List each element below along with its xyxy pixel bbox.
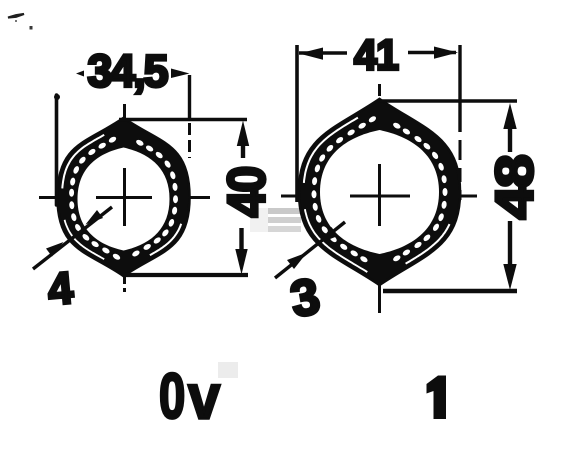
tube 1 vertical centerline — [378, 84, 381, 313]
dimension 41 right extension line — [458, 45, 461, 132]
dimension 34,5 right extension line — [188, 75, 191, 118]
svg-text:0: 0 — [159, 360, 185, 432]
dimension 41 left extension line — [295, 45, 299, 202]
dimension 34,5 left extension line — [55, 95, 59, 205]
size label 1 — [427, 376, 447, 420]
tube 1 center cross — [350, 195, 410, 198]
dimension 41 right arrow — [408, 51, 456, 55]
dimension 34,5 right arrow — [171, 69, 190, 79]
wall thickness 3 outer arrow — [287, 253, 307, 270]
tube 0v horizontal centerline — [39, 196, 210, 199]
tube 1 horizontal centerline — [281, 195, 478, 198]
dimension 34,5 left arrow — [76, 71, 84, 77]
svg-text:4: 4 — [46, 262, 75, 315]
dimension 48 top extension line — [378, 99, 517, 103]
dimension 48 top arrow — [503, 103, 516, 129]
wall thickness 3 inner arrow — [318, 227, 338, 244]
dimension 48 bottom extension line — [383, 289, 517, 294]
faint watermark bars center — [218, 208, 301, 378]
tube 0v wall (lemon profile section) — [58, 118, 190, 276]
svg-text:48: 48 — [486, 156, 545, 220]
tube 0v center cross — [96, 196, 152, 199]
tube 1 wall (lemon profile section) — [299, 99, 460, 285]
svg-text:v: v — [188, 361, 221, 432]
tube 0v vertical centerline — [123, 104, 126, 296]
wall thickness 3 leader line — [275, 222, 345, 278]
dimension 48 bottom arrow — [503, 264, 516, 290]
wall thickness 4 outer arrow — [46, 242, 64, 257]
dimension 40 top arrow — [237, 121, 249, 147]
scan smudge top-left corner — [8, 14, 33, 30]
dimension 40 top extension line — [119, 118, 247, 122]
wall thickness 4 leader line — [33, 207, 112, 269]
svg-text:34,5: 34,5 — [88, 46, 168, 97]
svg-text:40: 40 — [218, 167, 277, 217]
svg-text:41: 41 — [354, 32, 398, 80]
dimension 40 bottom arrow — [235, 249, 247, 275]
wall thickness 4 inner arrow — [86, 210, 104, 225]
dimension 40 bottom extension line — [125, 273, 248, 277]
dimension 41 left arrow — [299, 51, 347, 55]
